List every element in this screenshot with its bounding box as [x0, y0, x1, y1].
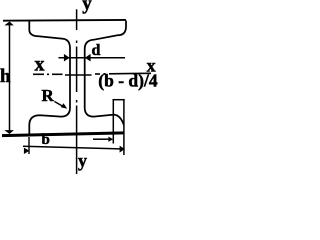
dimension b left arrow: [24, 148, 30, 154]
I-beam left half outline (top flange tip, underside, web, bottom flange): [29, 21, 70, 135]
I-beam right half outline (top flange tip, underside, web, bottom flange toe): [85, 21, 126, 126]
svg-text:(b - d)/4: (b - d)/4: [98, 70, 158, 90]
dimension b right arrow: [120, 146, 125, 153]
R leader line: [55, 102, 65, 108]
(b-d)/4 bracket top bar: [113, 99, 125, 101]
dimension h top arrow: [4, 22, 14, 26]
x centerline (horizontal dash-dot axis): [33, 73, 151, 75]
(b-d)/4 bracket right leg / flange tip extension line: [123, 100, 125, 156]
svg-text:y: y: [82, 0, 92, 14]
svg-text:d: d: [92, 42, 101, 59]
dimension d line: [59, 57, 126, 59]
dimension h bottom arrow: [4, 130, 14, 134]
dimension b left extension line: [28, 137, 30, 154]
y centerline (vertical dash-dot axis): [76, 9, 78, 174]
svg-text:x: x: [35, 53, 45, 75]
R leader arrowhead: [61, 103, 68, 109]
dimension h line: [9, 24, 11, 131]
dimension b line: [23, 146, 125, 149]
I-beam section top edge (with left extension line for h): [3, 19, 126, 22]
(b-d)/4 small arrow: [93, 138, 109, 140]
svg-text:b: b: [42, 132, 50, 148]
I-beam section bottom edge (thick, with left extension for h): [2, 133, 124, 136]
dimension d left arrow: [64, 54, 70, 62]
svg-text:h: h: [0, 66, 11, 87]
(b-d)/4 bracket left leg: [112, 100, 114, 144]
dimension d right arrow: [85, 54, 91, 62]
svg-text:y: y: [78, 151, 87, 171]
svg-text:R: R: [42, 86, 55, 105]
